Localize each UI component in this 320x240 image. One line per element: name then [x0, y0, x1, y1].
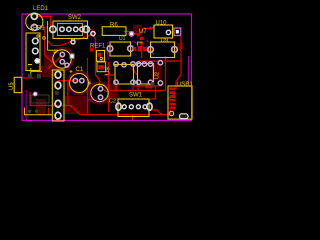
- zone ring around C2: [89, 83, 110, 104]
- SW2 body: [53, 21, 88, 39]
- svg-text:USB1: USB1: [177, 82, 193, 88]
- wire center vertical: [108, 62, 110, 112]
- U8 pad 3: [114, 80, 118, 84]
- svg-text:LED1: LED1: [33, 6, 49, 12]
- USB1: [145, 82, 193, 119]
- wire violet REF1 horizontal: [101, 67, 108, 69]
- wire violet REF1 vertical: [107, 42, 109, 60]
- U1: [107, 36, 133, 56]
- U7 pad 1: [140, 37, 144, 40]
- SW2 inner body: [58, 24, 83, 36]
- dark hole left b: [35, 109, 39, 113]
- USB1 body: [168, 86, 192, 119]
- wire violet near C2: [87, 99, 97, 101]
- wire violet center vertical: [86, 58, 88, 115]
- U7 pad row 1: [133, 47, 136, 51]
- U7 pad row 3: [143, 47, 147, 51]
- U8 pad 4: [131, 80, 135, 84]
- J2 oval pad 1: [55, 71, 61, 78]
- U10 pad round: [166, 30, 170, 34]
- U10 body: [154, 25, 173, 38]
- wire R6 to via: [124, 32, 132, 34]
- C3 body circle: [53, 50, 71, 68]
- zone fill left of SW1: [108, 84, 118, 99]
- U2 pad 3: [136, 80, 140, 84]
- capacitor C2: [88, 82, 116, 105]
- svg-text:SW2: SW2: [68, 15, 82, 21]
- zone ring around C3: [51, 48, 73, 70]
- board outline Edge.Cuts: [22, 14, 192, 120]
- C2 plus mark: [88, 82, 91, 85]
- via near C1: [65, 63, 69, 67]
- wire right vertical to USB: [176, 27, 181, 89]
- wire SW2 right pad to via: [86, 29, 93, 33]
- PR1 pad 3 white center: [35, 59, 39, 63]
- LED1: [26, 6, 49, 30]
- U8 pad red: [98, 65, 103, 70]
- pad top mid B: [142, 62, 146, 66]
- C2 pad 2: [98, 95, 102, 99]
- wire via toward U7: [133, 25, 155, 36]
- C3 pad 2: [60, 60, 64, 64]
- wire between U8 blocks: [133, 63, 138, 75]
- C1 pad 2: [80, 78, 84, 82]
- J2 oval pad 4: [55, 112, 61, 119]
- SW1 pin 2: [129, 105, 133, 109]
- switch SW2: [50, 15, 90, 39]
- svg-text:U9: U9: [161, 38, 169, 44]
- SW2 pad left: [50, 26, 56, 32]
- J2 body: [52, 70, 64, 121]
- SW2 pin 2: [67, 27, 71, 31]
- dark rect outline: [31, 95, 49, 103]
- capacitor C1: [70, 67, 89, 93]
- U9: [148, 38, 178, 58]
- U7: [133, 29, 147, 52]
- LED1 body circle: [26, 13, 43, 30]
- zone fill bottom-left: [36, 99, 46, 115]
- wire diagonal through C3: [48, 55, 63, 70]
- wire violet near U7 a: [133, 41, 138, 44]
- SW2 pin 3: [74, 27, 78, 31]
- U1 pad right: [128, 46, 134, 52]
- wire U9 bottom horizontal: [139, 61, 182, 64]
- LED1 pad 1: [31, 13, 37, 19]
- U8 body A: [115, 65, 134, 85]
- zone fill left-mid: [38, 66, 54, 77]
- C2 body circle: [91, 84, 108, 101]
- SW1 pad left oval: [116, 103, 121, 110]
- connector U5: [9, 77, 22, 92]
- wire via C1 stub: [67, 64, 70, 68]
- USB1 feed pads: [145, 85, 148, 89]
- zone fill right of U9: [177, 43, 184, 50]
- U2 body B: [138, 64, 154, 85]
- J2 hole: [55, 91, 60, 96]
- REF1 body: [97, 51, 105, 62]
- wire U7 pads down: [141, 45, 143, 58]
- wire bottom left vertical: [47, 108, 49, 115]
- svg-text:R6: R6: [110, 23, 118, 29]
- USB1 shield pad: [180, 114, 189, 119]
- wire thick right vertical: [165, 56, 167, 91]
- J2 oval pad 3: [55, 100, 61, 107]
- U1 body: [110, 42, 131, 56]
- zone fill near U7: [133, 25, 141, 35]
- dark hole left a: [28, 109, 32, 113]
- silk steps below PR1: [28, 65, 42, 79]
- USB1 pad 3: [170, 95, 176, 98]
- U7 silk: [138, 42, 143, 46]
- zone patch left of C3: [44, 52, 54, 70]
- U7 pad row 2: [138, 46, 142, 52]
- zone fill below C1: [64, 96, 90, 114]
- pad square white center near C3: [70, 54, 74, 58]
- U9 body: [151, 42, 175, 58]
- R6 body: [102, 27, 126, 36]
- wire left horizontal: [23, 77, 33, 79]
- wire diag SW1 to USB: [167, 93, 175, 100]
- via below SW2: [71, 40, 75, 44]
- dark pad left b: [37, 74, 41, 79]
- SW2 pin 4: [80, 27, 84, 31]
- SW1 body: [118, 99, 149, 117]
- C1 pad 1: [73, 78, 77, 82]
- wire center long horizontal: [109, 90, 166, 92]
- pad near U10: [149, 27, 152, 30]
- wire SW1 bottom: [132, 115, 134, 120]
- C3 plus mark: [54, 51, 57, 54]
- SW2 pin 1: [60, 27, 64, 31]
- wire LED1 top pad to right: [36, 16, 51, 29]
- wire SW1 branch: [150, 110, 162, 115]
- wire USB feed left: [134, 85, 162, 87]
- SW1 pin 4: [143, 105, 147, 109]
- USB1 pad 2: [170, 91, 176, 94]
- USB1 pad 5: [170, 103, 176, 106]
- PR1 pin mark: [37, 35, 39, 37]
- U2 block: [136, 62, 153, 85]
- U9 pad right: [172, 47, 178, 53]
- U5 body: [14, 77, 22, 92]
- svg-text:SW1: SW1: [129, 93, 143, 99]
- svg-text:U2: U2: [155, 72, 161, 79]
- via near SW2: [91, 31, 95, 35]
- wire USB feed down: [155, 86, 157, 99]
- J2 oval pad 2: [55, 82, 61, 89]
- REF1 pad 2: [98, 53, 101, 57]
- C3 pad 1: [60, 52, 64, 56]
- zone fill right of C2: [105, 84, 113, 90]
- wire C1 left pad: [58, 80, 75, 82]
- capacitor C3: [53, 50, 71, 68]
- wire C1 down: [67, 81, 69, 105]
- trimmer PR1: [26, 33, 40, 71]
- wire violet near U7 b: [147, 40, 149, 42]
- dark pad near U2: [150, 82, 154, 87]
- wire C2 pad diag: [103, 89, 109, 93]
- svg-text:U8: U8: [106, 67, 112, 75]
- U2 pad 2: [148, 62, 152, 66]
- U10 pad square white center: [174, 28, 181, 36]
- SW1 pad right oval: [147, 103, 152, 110]
- svg-text:PR1: PR1: [33, 26, 45, 32]
- via white center: [129, 32, 134, 37]
- wire via to REF1 down to C2: [93, 36, 100, 89]
- switch SW1: [116, 93, 152, 117]
- zone fill center-right: [152, 63, 161, 80]
- USB1 pad 6: [170, 107, 176, 110]
- wire USB left L: [151, 98, 156, 100]
- wire LED1 bottom pad down: [36, 27, 52, 62]
- wire bottom left L: [30, 92, 171, 115]
- connector J2 tall: [52, 70, 64, 121]
- wire violet left edge: [25, 90, 27, 121]
- REF1 pin mark: [100, 57, 103, 60]
- resistor R6: [102, 23, 126, 36]
- white pad top: [33, 92, 37, 96]
- USB1 pad 4: [170, 99, 176, 102]
- SW2 pad right: [83, 26, 89, 32]
- LED1 pad 2: [31, 24, 37, 30]
- REF1: [90, 44, 106, 62]
- U8: [97, 62, 135, 85]
- svg-text:C2: C2: [109, 99, 116, 105]
- U2 pad 4: [148, 80, 152, 84]
- PR1 body: [26, 33, 40, 71]
- PR1 pad 1: [33, 38, 39, 44]
- PR1 pad 2: [33, 48, 39, 54]
- SW1 pin 1: [122, 105, 126, 109]
- pad top mid A: [122, 63, 126, 67]
- C1 plus mark: [70, 70, 73, 73]
- U8 pad 2: [131, 62, 135, 66]
- USB1 pin mark: [169, 111, 173, 115]
- svg-text:U1: U1: [119, 36, 126, 42]
- pad right of U2 top: [158, 61, 162, 65]
- SW2 pin ticks: [72, 39, 75, 41]
- U7 pad 2: [140, 41, 144, 44]
- wire violet right edge: [188, 56, 190, 84]
- U1 pad left: [107, 46, 113, 52]
- wire U8 pads to bus: [115, 84, 117, 91]
- silk L bottom left: [24, 108, 52, 115]
- REF1 pad 1: [90, 48, 94, 52]
- U8 pad 1: [114, 62, 118, 66]
- wire red traces: [23, 16, 182, 120]
- svg-text:U7: U7: [139, 29, 147, 35]
- U10: [154, 21, 181, 39]
- svg-text:C1: C1: [76, 67, 84, 73]
- wire A left bus: [104, 74, 116, 76]
- zone ring around C1: [68, 72, 90, 94]
- C1 body circle: [70, 74, 89, 93]
- wire horizontal above C3: [48, 34, 93, 45]
- SW1 pin 3: [136, 105, 140, 109]
- pad right of U2 bottom: [158, 81, 162, 85]
- U8 small body: [97, 62, 106, 72]
- U9 pad left: [148, 47, 154, 53]
- U2 pad 1: [136, 62, 140, 66]
- C2 pad 1: [98, 87, 102, 91]
- wire diag to U9: [147, 48, 155, 54]
- svg-text:U10: U10: [156, 21, 168, 27]
- USB1 pad 1: [170, 88, 176, 91]
- silk ring on line: [43, 37, 46, 40]
- dark pad left a: [28, 74, 32, 79]
- silk line left of SW2: [48, 21, 58, 50]
